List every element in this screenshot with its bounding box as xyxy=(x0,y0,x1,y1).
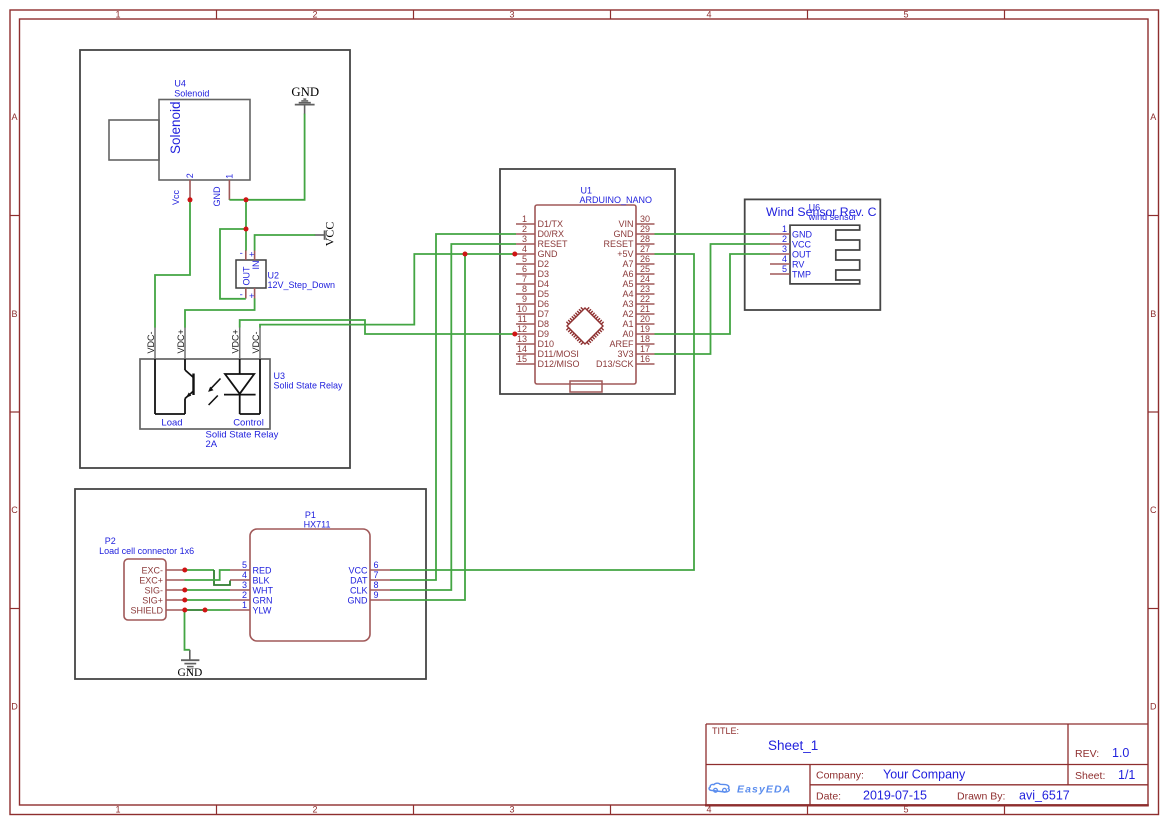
U1 pin 7 (D4) xyxy=(516,274,549,289)
svg-text:Control: Control xyxy=(233,418,264,429)
svg-text:P1: P1 xyxy=(305,510,316,520)
junction solenoid GND A xyxy=(244,197,249,202)
svg-text:3: 3 xyxy=(509,9,514,19)
svg-text:28: 28 xyxy=(640,234,650,244)
svg-text:6: 6 xyxy=(374,560,379,570)
U4 pin 1 xyxy=(228,180,230,200)
svg-text:U3: U3 xyxy=(274,371,286,381)
svg-text:VCC: VCC xyxy=(792,239,812,249)
svg-text:A1: A1 xyxy=(622,319,633,329)
svg-text:5: 5 xyxy=(782,264,787,274)
wire relay control VDC- to U1 GND pin4 xyxy=(260,254,516,328)
svg-text:CLK: CLK xyxy=(350,585,368,595)
svg-text:GND: GND xyxy=(291,85,319,99)
svg-text:D7: D7 xyxy=(538,309,550,319)
U1 pin 14 (D11/MOSI) xyxy=(516,344,579,359)
container box U4/U2/U3 group xyxy=(80,50,350,468)
svg-text:D1/TX: D1/TX xyxy=(538,219,564,229)
svg-text:EXC+: EXC+ xyxy=(139,575,163,585)
svg-text:D2: D2 xyxy=(538,259,550,269)
svg-text:19: 19 xyxy=(640,324,650,334)
svg-text:Your Company: Your Company xyxy=(883,768,966,782)
svg-text:Solenoid: Solenoid xyxy=(168,101,183,154)
svg-text:VDC-: VDC- xyxy=(146,331,156,353)
svg-text:Load: Load xyxy=(161,418,182,429)
svg-text:U4: U4 xyxy=(174,79,186,89)
svg-text:D13/SCK: D13/SCK xyxy=(596,359,634,369)
svg-text:11: 11 xyxy=(518,314,527,324)
ground flag near P2 xyxy=(181,650,199,671)
svg-text:A3: A3 xyxy=(622,299,633,309)
U1 pin 24 (A5) xyxy=(622,274,654,289)
U1 pin 3 (RESET) xyxy=(516,234,568,249)
svg-text:2: 2 xyxy=(312,9,317,19)
junction U1 GND pin4 xyxy=(512,252,517,257)
U1 pin 16 (D13/SCK) xyxy=(596,354,655,369)
wire U1 RESET to P1 CLK xyxy=(390,244,516,590)
svg-text:D3: D3 xyxy=(538,269,550,279)
U3 LED xyxy=(224,359,260,414)
junction U1 D9 xyxy=(512,332,517,337)
svg-text:8: 8 xyxy=(522,284,527,294)
title block outline xyxy=(705,724,1149,805)
U1 pin 12 (D9) xyxy=(516,324,549,339)
svg-text:7: 7 xyxy=(522,274,527,284)
U3 pin VDC- (load) xyxy=(154,327,156,359)
svg-text:D5: D5 xyxy=(538,289,550,299)
svg-text:2: 2 xyxy=(312,805,317,815)
svg-text:1: 1 xyxy=(115,9,120,19)
svg-text:1.0: 1.0 xyxy=(1112,746,1129,760)
U3 pin VDC+ (load) name xyxy=(176,329,186,353)
U2 pin OUT+ (bottom right) xyxy=(254,288,256,299)
connector P2 body xyxy=(124,559,166,620)
svg-text:2: 2 xyxy=(782,234,787,244)
U4 pin 2 name Vcc xyxy=(171,189,181,205)
U1 pin 15 (D12/MISO) xyxy=(516,354,580,369)
svg-text:GND: GND xyxy=(538,249,559,259)
svg-text:3: 3 xyxy=(509,805,514,815)
svg-text:Solenoid: Solenoid xyxy=(174,88,209,98)
regulator U2 body xyxy=(236,260,266,288)
svg-text:2A: 2A xyxy=(206,439,218,450)
svg-text:GND: GND xyxy=(614,229,635,239)
svg-text:Company:: Company: xyxy=(816,770,864,782)
U1 chip glyph xyxy=(566,307,603,344)
U3 pin VDC- (control) xyxy=(259,327,261,359)
svg-text:EXC-: EXC- xyxy=(141,565,163,575)
junction SHIELD A xyxy=(182,608,187,613)
svg-text:4: 4 xyxy=(242,570,247,580)
wire P2 SIG+ to P1 GRN xyxy=(185,599,231,601)
svg-text:HX711: HX711 xyxy=(304,519,331,529)
U4 pin 1 name GND xyxy=(212,186,222,207)
U3 pin VDC+ (load) xyxy=(184,327,186,359)
U1 pin 21 (A2) xyxy=(622,304,654,319)
svg-text:5: 5 xyxy=(903,9,908,19)
svg-text:VDC-: VDC- xyxy=(251,331,261,353)
svg-text:1: 1 xyxy=(224,174,234,179)
svg-text:D: D xyxy=(11,702,18,712)
U3 pin VDC+ (control) xyxy=(239,327,241,359)
wire P2 SHIELD segment xyxy=(185,609,206,611)
svg-text:+: + xyxy=(249,250,255,261)
solenoid U4 body xyxy=(159,100,250,181)
U1 pin 23 (A4) xyxy=(622,284,654,299)
U4 pin 2 number xyxy=(185,173,195,178)
U1 pin 22 (A3) xyxy=(622,294,654,309)
svg-text:1/1: 1/1 xyxy=(1118,768,1135,782)
svg-text:15: 15 xyxy=(517,354,527,364)
svg-text:16: 16 xyxy=(640,354,650,364)
svg-text:D12/MISO: D12/MISO xyxy=(538,359,580,369)
wire P2 SHIELD to P1 YLW xyxy=(205,609,230,611)
frame column numbers bottom xyxy=(115,805,908,815)
svg-text:Sheet_1: Sheet_1 xyxy=(768,738,818,753)
P1 pin 1 (YLW) xyxy=(230,600,272,615)
U1 pin 28 (RESET) xyxy=(603,234,654,249)
P1 pin 2 (GRN) xyxy=(230,590,273,605)
svg-text:U2: U2 xyxy=(268,271,280,281)
svg-text:17: 17 xyxy=(640,344,650,354)
container box P1/P2 group xyxy=(75,489,426,679)
svg-text:B: B xyxy=(1150,309,1156,319)
U1 pin 10 (D7) xyxy=(516,304,549,319)
wire U2 OUT- loop xyxy=(220,229,246,299)
junction solenoid GND B xyxy=(244,227,249,232)
solenoid U4 rotated name Solenoid xyxy=(168,101,183,154)
svg-text:Drawn By:: Drawn By: xyxy=(957,791,1005,803)
svg-text:D10: D10 xyxy=(538,339,555,349)
svg-text:26: 26 xyxy=(640,254,650,264)
svg-text:9: 9 xyxy=(522,294,527,304)
P1 pin 4 (BLK) xyxy=(230,570,270,585)
svg-text:4: 4 xyxy=(782,254,787,264)
P2 pin EXC+ xyxy=(139,575,184,585)
svg-text:4: 4 xyxy=(522,244,527,254)
P2 pin EXC- xyxy=(141,565,184,575)
junction SIG+ xyxy=(182,598,187,603)
U1 pin 29 (GND) xyxy=(614,224,655,239)
svg-text:SIG+: SIG+ xyxy=(142,595,163,605)
U6 pin 2 (VCC) xyxy=(770,234,812,249)
U1 pin 8 (D5) xyxy=(516,284,549,299)
svg-text:3: 3 xyxy=(242,580,247,590)
vcc net flag label VCC xyxy=(323,222,337,247)
ground flag near solenoid xyxy=(295,99,315,114)
U2 pin IN+ (top right) xyxy=(254,250,256,260)
wire U2 IN+ to VCC flag xyxy=(255,235,316,251)
wire U2 OUT+ to relay load VDC+ xyxy=(185,298,255,327)
wire U1 +5V to P1 VCC xyxy=(390,254,694,570)
wire U1 3V3 to U6 VCC xyxy=(655,244,771,354)
wire U1 GND pin29 to U6 GND xyxy=(655,233,771,235)
svg-text:SHIELD: SHIELD xyxy=(130,605,163,615)
junction SIG- xyxy=(182,588,187,593)
U1 pin 19 (A0) xyxy=(622,324,654,339)
svg-text:D0/RX: D0/RX xyxy=(538,229,565,239)
relay U3 body xyxy=(140,359,270,429)
wire relay control VDC+ to U1 D9 xyxy=(240,320,516,334)
svg-text:3: 3 xyxy=(522,234,527,244)
svg-text:D: D xyxy=(1150,702,1157,712)
svg-text:10: 10 xyxy=(517,304,527,314)
svg-text:C: C xyxy=(1150,505,1157,515)
vcc net flag xyxy=(315,230,325,239)
P2 pin SIG+ xyxy=(142,595,184,605)
svg-text:A: A xyxy=(11,112,17,122)
U1 pin 18 (AREF) xyxy=(609,334,654,349)
svg-text:VIN: VIN xyxy=(618,219,633,229)
wire solenoid GND to top ground flag xyxy=(229,114,304,200)
svg-text:DAT: DAT xyxy=(350,575,368,585)
wire P2 SHIELD to bottom ground flag xyxy=(185,610,190,650)
frame column numbers top xyxy=(115,9,908,19)
svg-text:3: 3 xyxy=(782,244,787,254)
wire U1 A0 to U6 OUT xyxy=(655,254,771,334)
svg-text:1: 1 xyxy=(782,224,787,234)
svg-text:1: 1 xyxy=(115,805,120,815)
svg-text:VDC+: VDC+ xyxy=(176,329,186,353)
svg-text:VCC: VCC xyxy=(323,222,337,247)
svg-text:VCC: VCC xyxy=(348,565,368,575)
mcu U1 body xyxy=(535,205,636,384)
junction GND branch xyxy=(463,252,468,257)
svg-text:BLK: BLK xyxy=(253,575,270,585)
svg-text:P2: P2 xyxy=(105,536,116,546)
svg-text:Vcc: Vcc xyxy=(171,189,181,205)
svg-text:D6: D6 xyxy=(538,299,550,309)
svg-text:3V3: 3V3 xyxy=(617,349,633,359)
svg-text:22: 22 xyxy=(640,294,650,304)
U3 pin VDC- (control) name xyxy=(251,331,261,353)
svg-text:25: 25 xyxy=(640,264,650,274)
svg-text:2: 2 xyxy=(522,224,527,234)
svg-text:14: 14 xyxy=(517,344,527,354)
svg-text:Date:: Date: xyxy=(816,791,841,803)
svg-text:D9: D9 xyxy=(538,329,550,339)
svg-text:GND: GND xyxy=(348,595,369,605)
wire solenoid GND down to U2 xyxy=(245,200,247,251)
P1 pin 7 (DAT) xyxy=(350,570,390,585)
U1 pin 26 (A7) xyxy=(622,254,654,269)
U2 pin IN- (top left) xyxy=(245,250,247,260)
U1 pin 17 (3V3) xyxy=(617,344,654,359)
svg-text:REV:: REV: xyxy=(1075,748,1099,760)
frame column ticks xyxy=(217,10,1005,815)
U6 pin 4 (RV) xyxy=(770,254,804,269)
svg-text:-: - xyxy=(240,248,243,259)
svg-text:U1: U1 xyxy=(581,185,593,195)
svg-text:RESET: RESET xyxy=(538,239,569,249)
wire solenoid Vcc to relay load VDC- xyxy=(155,200,190,328)
svg-text:SIG-: SIG- xyxy=(144,585,163,595)
svg-text:12: 12 xyxy=(517,324,527,334)
svg-text:1: 1 xyxy=(242,600,247,610)
wire P2 EXC+ to P1 RED xyxy=(185,570,231,580)
svg-text:2019-07-15: 2019-07-15 xyxy=(863,789,927,803)
U4 pin 1 number xyxy=(224,174,234,179)
U6 pin 1 (GND) xyxy=(770,224,813,239)
svg-text:29: 29 xyxy=(640,224,650,234)
svg-text:TITLE:: TITLE: xyxy=(712,726,739,736)
svg-text:GRN: GRN xyxy=(253,595,273,605)
U6 pin 5 (TMP) xyxy=(770,264,811,279)
solenoid U4 plunger xyxy=(109,120,159,160)
P1 pin 8 (CLK) xyxy=(350,580,390,595)
svg-text:5: 5 xyxy=(522,254,527,264)
svg-text:+5V: +5V xyxy=(617,249,633,259)
svg-text:24: 24 xyxy=(640,274,650,284)
svg-text:2: 2 xyxy=(185,173,195,178)
svg-text:RED: RED xyxy=(253,565,273,575)
container box U1 group xyxy=(500,169,675,394)
sensor U6 symbol body with heater meander xyxy=(790,225,860,284)
svg-text:23: 23 xyxy=(640,284,650,294)
U3 opto arrow 1 xyxy=(208,379,220,392)
svg-text:B: B xyxy=(11,309,17,319)
U2 rotated label OUT xyxy=(242,266,252,286)
svg-text:A0: A0 xyxy=(622,329,633,339)
U1 usb connector glyph xyxy=(570,381,602,392)
P2 pin SIG- xyxy=(144,585,184,595)
U2 rotated label IN xyxy=(251,261,261,270)
svg-text:18: 18 xyxy=(640,334,650,344)
U1 pin 6 (D3) xyxy=(516,264,549,279)
junction SHIELD B xyxy=(203,608,208,613)
U1 pin 25 (A6) xyxy=(622,264,654,279)
svg-text:20: 20 xyxy=(640,314,650,324)
P1 pin 5 (RED) xyxy=(230,560,272,575)
frame row ticks xyxy=(10,216,1159,609)
svg-text:RV: RV xyxy=(792,259,804,269)
U1 pin 13 (D10) xyxy=(516,334,554,349)
U3 phototransistor xyxy=(155,359,194,414)
svg-text:A5: A5 xyxy=(622,279,633,289)
svg-text:8: 8 xyxy=(374,580,379,590)
frame row letters left xyxy=(11,112,18,712)
svg-text:Sheet:: Sheet: xyxy=(1075,770,1105,782)
svg-text:GND: GND xyxy=(212,186,222,207)
svg-text:GND: GND xyxy=(792,229,813,239)
U3 pin VDC- (load) name xyxy=(146,331,156,353)
P1 pin 3 (WHT) xyxy=(230,580,273,595)
svg-text:6: 6 xyxy=(522,264,527,274)
svg-text:21: 21 xyxy=(640,304,650,314)
U4 pin 2 xyxy=(189,180,191,200)
svg-text:VDC+: VDC+ xyxy=(231,329,241,353)
svg-text:YLW: YLW xyxy=(253,605,272,615)
svg-text:4: 4 xyxy=(706,9,711,19)
svg-text:A: A xyxy=(1150,112,1156,122)
container box U6 group xyxy=(745,199,881,310)
U1 pin 30 (VIN) xyxy=(618,214,654,229)
U1 pin 5 (D2) xyxy=(516,254,549,269)
U1 pin 20 (A1) xyxy=(622,314,654,329)
svg-text:9: 9 xyxy=(374,590,379,600)
U3 pin VDC+ (control) name xyxy=(231,329,241,353)
U1 pin 4 (GND) xyxy=(516,244,558,259)
svg-text:RESET: RESET xyxy=(603,239,634,249)
svg-text:Solid State Relay: Solid State Relay xyxy=(274,381,344,391)
P1 pin 6 (VCC) xyxy=(348,560,390,575)
module P1 body xyxy=(250,529,370,641)
junction solenoid Vcc xyxy=(188,197,193,202)
wire U1 D0/RX to P1 DAT xyxy=(390,234,516,580)
U3 opto arrow 2 xyxy=(209,396,218,406)
wire P2 SIG- to P1 WHT xyxy=(185,589,231,591)
svg-text:D4: D4 xyxy=(538,279,550,289)
svg-text:12V_Step_Down: 12V_Step_Down xyxy=(268,280,336,290)
U6 pin 3 (OUT) xyxy=(770,244,812,259)
svg-text:A4: A4 xyxy=(622,289,633,299)
U1 pin 1 (D1/TX) xyxy=(516,214,563,229)
svg-text:D8: D8 xyxy=(538,319,550,329)
svg-text:1: 1 xyxy=(522,214,527,224)
svg-text:ARDUINO_NANO: ARDUINO_NANO xyxy=(580,195,653,205)
svg-text:D11/MOSI: D11/MOSI xyxy=(538,349,579,359)
svg-text:WHT: WHT xyxy=(253,585,274,595)
wire P2 EXC- jog xyxy=(214,570,230,585)
svg-text:13: 13 xyxy=(517,334,527,344)
svg-text:A6: A6 xyxy=(622,269,633,279)
junction EXC- xyxy=(182,568,187,573)
wire P2 EXC- to P1 BLK xyxy=(185,569,215,571)
svg-text:Load cell connector 1x6: Load cell connector 1x6 xyxy=(99,546,194,556)
P1 pin 9 (GND) xyxy=(348,590,391,605)
svg-text:TMP: TMP xyxy=(792,269,811,279)
svg-text:Wind Sensor Rev. C: Wind Sensor Rev. C xyxy=(766,205,877,219)
svg-text:EasyEDA: EasyEDA xyxy=(737,784,791,796)
svg-text:avi_6517: avi_6517 xyxy=(1019,789,1070,803)
svg-text:2: 2 xyxy=(242,590,247,600)
svg-text:30: 30 xyxy=(640,214,650,224)
EasyEDA logo xyxy=(709,783,791,795)
svg-text:IN: IN xyxy=(251,261,261,270)
svg-text:C: C xyxy=(11,505,18,515)
U1 pin 11 (D8) xyxy=(516,314,549,329)
svg-text:AREF: AREF xyxy=(609,339,634,349)
U1 pin 27 (+5V) xyxy=(617,244,654,259)
U2 pin OUT- (bottom left) xyxy=(245,288,247,299)
U1 pin 9 (D6) xyxy=(516,294,549,309)
svg-text:27: 27 xyxy=(640,244,650,254)
svg-text:A2: A2 xyxy=(622,309,633,319)
svg-text:5: 5 xyxy=(242,560,247,570)
P2 pin SHIELD xyxy=(130,605,184,615)
wire U1 GND pin4 branch to P1 GND pin9 xyxy=(390,254,465,600)
svg-text:OUT: OUT xyxy=(792,249,812,259)
frame row letters right xyxy=(1150,112,1157,712)
U1 pin 2 (D0/RX) xyxy=(516,224,564,239)
svg-text:A7: A7 xyxy=(622,259,633,269)
svg-text:GND: GND xyxy=(177,667,202,679)
svg-text:7: 7 xyxy=(374,570,379,580)
